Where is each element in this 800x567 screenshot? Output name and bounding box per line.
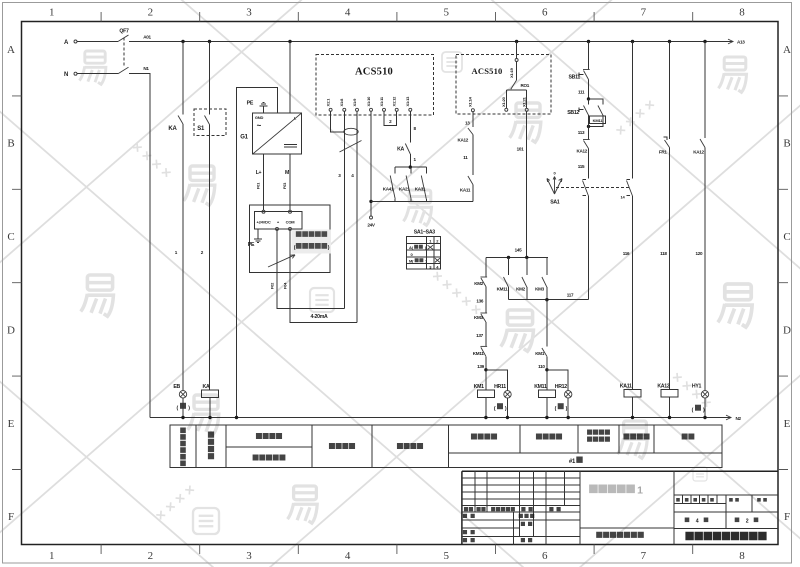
wire 110 <box>546 356 548 390</box>
svg-text:117: 117 <box>567 293 574 298</box>
svg-text:1: 1 <box>49 7 55 19</box>
svg-text:KA41: KA41 <box>383 187 394 192</box>
svg-text:FR1: FR1 <box>659 150 668 155</box>
switch S1 (dashed enclosure) <box>194 109 226 136</box>
wire 11 <box>472 135 474 176</box>
svg-text:2: 2 <box>148 550 154 562</box>
svg-text:X1:14: X1:14 <box>468 96 473 107</box>
svg-text:X1:1: X1:1 <box>325 98 330 107</box>
VFD U1 ACS510 (dashed enclosure) <box>316 55 434 116</box>
svg-text:HY1: HY1 <box>692 384 702 390</box>
bus above KA41/KA21/KA31 <box>395 166 426 168</box>
contact KM1 NO (line-run chain) <box>546 300 548 347</box>
svg-text:KA: KA <box>397 147 404 153</box>
transmitter terminal box <box>255 212 303 229</box>
pushbutton SB11 (stop, NC) <box>584 71 589 80</box>
junctions on A bus <box>181 40 184 43</box>
contact KA31 <box>425 167 427 173</box>
interlock top bus <box>486 256 548 258</box>
wire 2 (A bus to S1) <box>209 42 211 115</box>
wire X1:1 shield link <box>331 111 345 132</box>
wire F02 (transmitter signal to X1:8 wire 3) <box>277 229 344 309</box>
wire A bus to U2 X1:19 <box>516 42 518 59</box>
wire 111 <box>588 80 590 99</box>
svg-text:B: B <box>783 138 790 150</box>
svg-text:A: A <box>783 44 791 56</box>
revision header texts <box>464 507 473 511</box>
svg-text:KM2: KM2 <box>474 281 484 286</box>
wire 116 to coil KA11 <box>632 196 634 390</box>
svg-text:KM11: KM11 <box>593 118 604 123</box>
wire 118 to coil KA12 <box>669 148 671 390</box>
jumper X1:11 to X1:12 <box>384 111 397 125</box>
svg-text:11: 11 <box>463 155 468 160</box>
svg-text:145: 145 <box>515 248 523 253</box>
svg-text:E: E <box>8 418 15 430</box>
wire 120 to lamp HY1 <box>704 148 706 391</box>
svg-text:KM11: KM11 <box>497 287 509 292</box>
VFD U2 ACS510 (dashed enclosure) <box>456 55 551 115</box>
contact KA21 <box>410 167 412 173</box>
shielded pair marker (ellipse) <box>344 128 358 135</box>
svg-text:2: 2 <box>746 518 749 524</box>
junctions on N rail <box>181 416 184 419</box>
svg-text:6: 6 <box>542 7 548 19</box>
svg-text:C: C <box>7 231 14 243</box>
interlock bottom bus 117 <box>509 299 589 301</box>
svg-text:118: 118 <box>660 251 667 256</box>
lamp HR12 (red, line run) <box>547 370 568 391</box>
svg-text:F: F <box>784 511 790 523</box>
svg-text:X1:13: X1:13 <box>405 96 410 107</box>
svg-text:KM3: KM3 <box>474 315 484 320</box>
watermark yi glyphs <box>87 275 112 290</box>
svg-text:KA11: KA11 <box>620 384 632 390</box>
PE ground at transmitter <box>257 229 259 239</box>
label manual state line start/stop <box>587 430 610 435</box>
transmitter adjustment arrow <box>268 255 295 267</box>
svg-text:8: 8 <box>739 550 745 562</box>
svg-text:24V: 24V <box>367 223 376 228</box>
svg-text:136: 136 <box>476 299 484 304</box>
wire 2 down to coil KA <box>209 125 211 391</box>
wire A bus to FR1 <box>669 42 671 140</box>
label auto-run indication (vertical) <box>180 428 186 467</box>
svg-text:X1:20: X1:20 <box>501 96 506 107</box>
svg-text:KA12: KA12 <box>693 150 704 155</box>
svg-text:KA31: KA31 <box>415 187 426 192</box>
svg-text:G1: G1 <box>240 135 248 141</box>
svg-text:KA: KA <box>168 126 177 132</box>
svg-text:110: 110 <box>538 364 545 369</box>
svg-text:RO1: RO1 <box>521 83 530 88</box>
wire 8 from X1:13 <box>409 111 411 142</box>
svg-text:S1: S1 <box>197 126 205 132</box>
contact KM3 NC <box>481 314 486 322</box>
label changeover switch (vertical) <box>208 432 214 460</box>
contact KM2 NC (interlock chain) <box>485 257 487 277</box>
svg-text:8: 8 <box>739 7 745 19</box>
wire 101 from X1:21 down <box>526 111 528 257</box>
svg-text:PE: PE <box>247 101 254 107</box>
svg-text:HR11: HR11 <box>494 384 506 390</box>
label pressure transmitter (3-wire) <box>292 230 332 254</box>
wire N1 to left rail <box>129 74 150 418</box>
svg-text:KA12: KA12 <box>657 384 669 390</box>
parallel contact KM3 <box>546 257 548 275</box>
breaker QF7 pole 1 <box>118 35 129 42</box>
wire node 1 to contact bus <box>409 154 411 167</box>
contact KA12 NC on start chain <box>584 141 589 149</box>
wire A01 top bus <box>129 41 733 43</box>
svg-text:2: 2 <box>148 7 154 19</box>
svg-text:X1:8: X1:8 <box>339 98 344 107</box>
signature area rows/cols <box>462 512 580 544</box>
svg-text:COM: COM <box>286 220 296 225</box>
label DC power <box>256 433 282 439</box>
svg-text:KA12: KA12 <box>457 138 468 143</box>
arrow to N2 <box>726 415 731 420</box>
U1 terminals X1:1..X1:13 <box>329 108 332 111</box>
wire 4 (X1:9 to transmitter) <box>356 111 358 322</box>
wire A bus to G1 L input <box>289 42 291 114</box>
contact KA12 on wire 13 <box>468 128 473 135</box>
middle separator <box>580 527 674 529</box>
right info grid <box>674 495 778 529</box>
svg-text:F03: F03 <box>282 182 287 189</box>
wire from A bus to SB11 <box>588 42 590 70</box>
grid ticks top/bottom <box>101 12 693 554</box>
label feedback signal <box>329 443 355 449</box>
svg-text:N: N <box>64 72 68 78</box>
svg-text:KA12: KA12 <box>576 149 587 154</box>
watermark logo squares <box>310 288 334 312</box>
svg-text:ACS510: ACS510 <box>472 66 503 76</box>
svg-text:115: 115 <box>578 164 585 169</box>
selector SA1 pole 2 <box>627 180 631 196</box>
svg-text:X1:21: X1:21 <box>521 96 526 107</box>
svg-text:SB12: SB12 <box>567 110 579 116</box>
parallel contact KM11 <box>508 257 510 275</box>
svg-text:KM1: KM1 <box>474 384 484 390</box>
wire lamp EB to N rail <box>182 398 184 418</box>
sheet count row <box>685 518 690 523</box>
svg-text:4-20mA: 4-20mA <box>311 314 328 320</box>
svg-text:4: 4 <box>345 550 351 562</box>
svg-text:X1:12: X1:12 <box>392 96 397 107</box>
svg-text:F01: F01 <box>256 182 261 189</box>
svg-text:KM3: KM3 <box>535 287 545 292</box>
wire A to QF7 <box>77 41 118 43</box>
title block outline <box>462 471 778 544</box>
SA1 mechanical linkage (dashed) <box>556 187 631 189</box>
breaker QF7 linkage (dashed) <box>123 38 125 68</box>
relay output RO1 inside U2 <box>516 62 518 81</box>
wire A bus to KA12 contact <box>704 42 706 139</box>
svg-text:3: 3 <box>246 550 252 562</box>
G1 output wires L+ and M <box>263 154 265 210</box>
svg-text:5: 5 <box>443 550 449 562</box>
wire 1 (A bus to KA contact) <box>182 42 184 115</box>
svg-text:KM11: KM11 <box>473 351 485 356</box>
wire F04 (transmitter COM to X1:9 wire 4) <box>290 229 357 323</box>
selector switch SA1 pole 1 <box>582 180 586 196</box>
svg-text:4: 4 <box>696 518 699 524</box>
svg-text:C: C <box>783 231 790 243</box>
thermal overload contact FR1 <box>664 137 667 140</box>
svg-text:KM2: KM2 <box>516 287 526 292</box>
pushbutton SB12 (start, NO) <box>584 106 589 116</box>
svg-text:F02: F02 <box>270 282 275 289</box>
N rail bottom bus <box>150 417 731 419</box>
wire 136 <box>485 287 487 314</box>
svg-text:X1:19: X1:19 <box>509 67 514 78</box>
parallel contact KM2 <box>526 257 528 275</box>
label pressure transmitter <box>253 455 286 461</box>
svg-text:137: 137 <box>476 333 484 338</box>
wire 3 (X1:8 to transmitter) <box>343 111 345 308</box>
svg-text:7: 7 <box>641 7 647 19</box>
wire coil KA to N rail <box>209 398 211 418</box>
svg-text:X1:11: X1:11 <box>379 96 384 106</box>
stage mark tiny labels <box>676 498 680 502</box>
wire KA11 contact to 24V bus <box>472 185 474 202</box>
svg-text:SA1~SA3: SA1~SA3 <box>414 230 436 236</box>
svg-text:L+: L+ <box>256 170 262 176</box>
contact KA41 <box>394 167 396 173</box>
arrow to A13 <box>728 39 733 44</box>
revision table columns <box>475 471 565 512</box>
svg-text:D: D <box>783 324 791 336</box>
svg-text:KA21: KA21 <box>399 187 410 192</box>
wire X1:10 to 24V terminal <box>370 111 372 216</box>
signal description table <box>170 425 722 468</box>
svg-text:KA: KA <box>203 384 210 390</box>
svg-text:120: 120 <box>696 251 704 256</box>
svg-text:113: 113 <box>578 130 585 135</box>
breaker QF7 pole 2 <box>118 67 129 74</box>
drawing title (gray) <box>589 485 635 494</box>
label VFD run <box>471 434 497 440</box>
wire 1 down to lamp EB <box>182 124 184 391</box>
svg-text:N2: N2 <box>736 416 742 421</box>
wire 117 down to interlock bus <box>588 196 590 300</box>
svg-text:F04: F04 <box>283 282 288 289</box>
wire A bus to SA1 pole 2 <box>632 42 634 179</box>
label auto state <box>623 434 649 440</box>
svg-text:4: 4 <box>345 7 351 19</box>
svg-text:F: F <box>8 511 14 523</box>
svg-text:A01: A01 <box>143 35 151 40</box>
svg-text:B: B <box>7 138 14 150</box>
lamp HR11 (red, VFD run) <box>486 370 508 391</box>
svg-text:HR12: HR12 <box>555 384 567 390</box>
svg-text:X1:9: X1:9 <box>352 98 357 107</box>
cabinet name: constant pressure water supply control cabinet <box>596 532 644 538</box>
svg-text:3: 3 <box>246 7 252 19</box>
power supply G1 (AC/DC converter) <box>253 113 302 154</box>
svg-text:111: 111 <box>578 90 585 95</box>
wire 115 <box>588 149 590 179</box>
svg-text:13: 13 <box>465 121 470 126</box>
wire 13 from X1:14 <box>472 112 474 127</box>
shield slash across wires 3 and 4 <box>340 141 362 153</box>
contact KA11 on wire 11 <box>468 176 473 185</box>
wire G1 neutral loop to N rail <box>237 88 278 418</box>
svg-text:139: 139 <box>477 364 485 369</box>
svg-text:PE: PE <box>248 242 255 248</box>
aux contact KM11 (seal-in branch) <box>589 99 603 105</box>
label VFD start <box>397 443 423 449</box>
svg-text:5: 5 <box>443 7 449 19</box>
svg-text:A: A <box>7 44 15 56</box>
svg-text:~: ~ <box>257 121 262 130</box>
svg-text:KM11: KM11 <box>534 384 547 390</box>
svg-text:X1:10: X1:10 <box>366 96 371 107</box>
svg-text:1: 1 <box>49 550 55 562</box>
wire 113 <box>588 115 590 126</box>
wire 139 <box>485 356 487 390</box>
svg-text:SB11: SB11 <box>569 75 581 81</box>
svg-text:GND: GND <box>255 115 264 120</box>
contact KA on wire 8 <box>405 144 410 155</box>
contact KA12 (fault indication) <box>700 139 705 148</box>
svg-text:EB: EB <box>173 384 180 390</box>
company name <box>685 532 766 540</box>
contact KM11 NC <box>481 347 486 356</box>
U2 terminal X1:14 <box>471 109 474 112</box>
svg-text:116: 116 <box>623 251 630 256</box>
svg-text:D: D <box>7 324 15 336</box>
svg-text:#1: #1 <box>569 459 576 465</box>
svg-text:M: M <box>285 170 289 176</box>
revision table rows <box>462 478 580 512</box>
svg-text:KA11: KA11 <box>460 188 471 193</box>
svg-text:KM1: KM1 <box>535 351 545 356</box>
svg-text:1: 1 <box>637 485 643 497</box>
pressure transmitter outer box <box>249 205 330 273</box>
svg-text:QF7: QF7 <box>119 29 129 35</box>
wire N to QF7 <box>77 73 118 75</box>
svg-text:A13: A13 <box>737 40 745 45</box>
svg-text:E: E <box>784 418 791 430</box>
svg-text:6: 6 <box>542 550 548 562</box>
selector SA1 operator symbol <box>547 177 562 195</box>
svg-text:ACS510: ACS510 <box>355 67 393 78</box>
svg-text:7: 7 <box>641 550 647 562</box>
label fault <box>682 434 695 440</box>
svg-text:N1: N1 <box>143 66 149 71</box>
label line-frequency run <box>536 434 562 440</box>
contact KA (relay contact) <box>178 116 183 125</box>
signature labels <box>463 514 475 518</box>
svg-text:SA1: SA1 <box>550 200 560 206</box>
svg-text:+24VDC: +24VDC <box>256 220 270 225</box>
grid ticks left/right <box>12 96 788 470</box>
wire 137 <box>485 322 487 346</box>
24V collector bus <box>371 200 473 202</box>
svg-text:101: 101 <box>517 147 525 152</box>
